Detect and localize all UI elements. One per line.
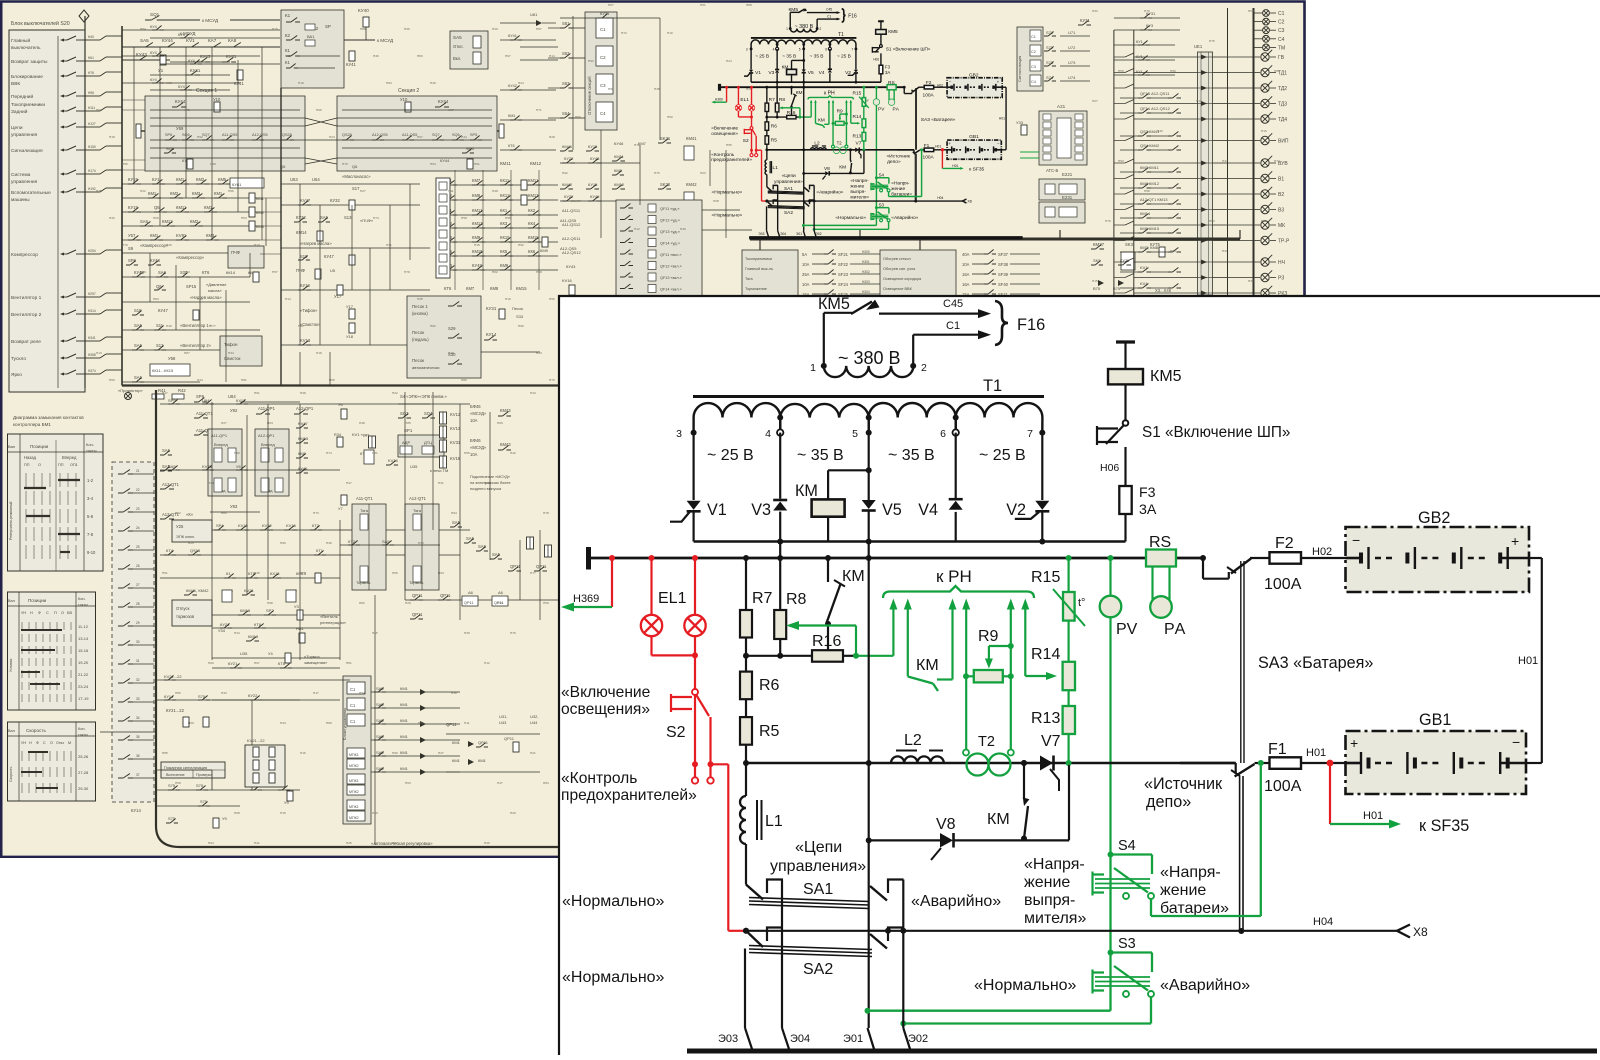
svg-text:УН: УН [21, 741, 26, 745]
svg-text:Н15: Н15 [272, 27, 278, 31]
svg-text:У9: У9 [222, 816, 228, 821]
wire H04 [766, 199, 962, 204]
svg-text:Н01: Н01 [1518, 655, 1538, 667]
svg-text:С45: С45 [943, 298, 963, 310]
low bus [767, 147, 914, 152]
svg-text:У68: У68 [168, 356, 176, 361]
svg-text:SQ7: SQ7 [202, 133, 210, 137]
svg-text:Н49: Н49 [680, 227, 686, 231]
svg-text:Х8: Х8 [967, 200, 971, 204]
svg-text:КМ1: КМ1 [508, 114, 516, 118]
svg-text:НЧ: НЧ [1278, 260, 1285, 266]
wire V8 row [869, 839, 940, 841]
battery GB2 [1346, 527, 1530, 592]
svg-text:37: 37 [136, 773, 140, 777]
svg-text:Н81: Н81 [346, 661, 352, 665]
svg-text:КМ42: КМ42 [686, 182, 697, 187]
svg-text:Главный вык-ль: Главный вык-ль [745, 267, 773, 271]
wire C1 with arrow [912, 335, 914, 366]
switch S4 [1108, 852, 1114, 858]
svg-text:Песок: Песок [512, 306, 523, 311]
svg-text:Н88: Н88 [746, 3, 752, 7]
sheet border [1, 2, 1304, 859]
svg-text:KV4: KV4 [1140, 281, 1148, 286]
svg-text:EL1: EL1 [740, 97, 749, 103]
svg-text:SA3 «Батарея»: SA3 «Батарея» [1258, 654, 1373, 672]
svg-text:такты: такты [78, 603, 88, 607]
svg-text:«Нормально»: «Нормально» [974, 977, 1077, 994]
wire S3 left net [803, 223, 876, 228]
svg-text:Н89: Н89 [221, 511, 227, 515]
svg-text:Н61: Н61 [96, 108, 102, 112]
svg-text:23-24: 23-24 [78, 684, 89, 689]
svg-text:Н77: Н77 [530, 571, 536, 575]
svg-text:Н67: Н67 [608, 3, 614, 7]
thyristor V1 [749, 70, 753, 73]
wire bar-coil [1124, 342, 1126, 369]
svg-text:П: П [54, 611, 57, 615]
svg-text:SP6: SP6 [165, 133, 172, 137]
svg-text:КУ31: КУ31 [1080, 18, 1090, 23]
svg-text:КМ14: КМ14 [296, 230, 307, 235]
svg-text:~ 25 В: ~ 25 В [707, 447, 754, 464]
svg-text:31: 31 [136, 659, 140, 663]
svg-text:QF12 «вкл.»: QF12 «вкл.» [660, 265, 682, 269]
svg-text:Н14: Н14 [549, 54, 555, 58]
svg-text:5-6: 5-6 [87, 514, 94, 519]
svg-text:КК14: КК14 [226, 270, 236, 275]
wire R5-lowbus [745, 745, 747, 763]
svg-text:Н83: Н83 [153, 297, 159, 301]
svg-text:1: 1 [786, 27, 788, 31]
green feedback to R8 [853, 653, 859, 659]
svg-text:Н74: Н74 [373, 216, 379, 220]
svg-text:15-16: 15-16 [78, 648, 89, 653]
wire 4-V3 [779, 433, 781, 499]
svg-text:У83: У83 [230, 504, 238, 509]
svg-text:Н02: Н02 [1312, 546, 1332, 558]
svg-text:Н97: Н97 [575, 199, 581, 203]
svg-text:F1: F1 [1268, 741, 1287, 758]
svg-text:Х3...Х46: Х3...Х46 [1155, 288, 1172, 293]
svg-text:депо»: депо» [887, 160, 901, 165]
wire coil-S1 [1124, 384, 1126, 419]
svg-text:100А: 100А [1264, 778, 1302, 795]
svg-text:29: 29 [136, 621, 140, 625]
svg-text:«Нагрев масла»: «Нагрев масла» [190, 295, 222, 300]
svg-text:Н73: Н73 [184, 270, 190, 274]
wire V3-bus [775, 73, 780, 82]
svg-text:Н98: Н98 [608, 87, 614, 91]
svg-text:Секция 2: Секция 2 [398, 88, 419, 94]
low bus [746, 762, 1236, 764]
svg-text:Главный: Главный [11, 37, 30, 44]
terminal 1 [789, 27, 792, 30]
svg-text:КМ: КМ [818, 117, 825, 123]
svg-text:S13: S13 [344, 215, 352, 220]
svg-text:А6: А6 [498, 590, 504, 595]
svg-text:U53: U53 [290, 177, 298, 182]
svg-text:Н369: Н369 [573, 593, 599, 605]
svg-text:Вентилятор 2: Вентилятор 2 [11, 312, 42, 318]
svg-text:к SF35: к SF35 [969, 167, 984, 173]
contact KM aux [789, 87, 794, 94]
wire E01 foot [868, 1028, 875, 1049]
T1 core [693, 395, 1044, 398]
svg-text:Кон-: Кон- [78, 597, 86, 601]
wire R7-node [745, 638, 747, 656]
svg-text:КК4: КК4 [528, 221, 536, 226]
svg-text:Э03: Э03 [718, 1033, 738, 1045]
svg-text:МПК1: МПК1 [349, 753, 359, 757]
svg-text:F1: F1 [924, 143, 930, 149]
svg-text:Н14: Н14 [285, 297, 291, 301]
svg-text:Н69: Н69 [153, 216, 159, 220]
svg-text:KV91: KV91 [176, 233, 187, 238]
svg-text:5: 5 [799, 47, 801, 51]
svg-text:−: − [1512, 734, 1520, 750]
svg-text:R15: R15 [853, 91, 862, 97]
resistor R14 [1067, 621, 1069, 662]
svg-text:Н80: Н80 [326, 721, 332, 725]
green wire 3 [827, 101, 832, 124]
svg-text:Н34: Н34 [234, 631, 240, 635]
svg-text:батареи»: батареи» [1160, 900, 1229, 917]
svg-text:S3: S3 [879, 202, 885, 207]
switch SA3 upper [1202, 558, 1204, 579]
svg-text:Н37: Н37 [1222, 159, 1228, 163]
svg-text:Н43: Н43 [280, 721, 286, 725]
svg-text:выпря-: выпря- [1024, 892, 1075, 909]
svg-text:Н62: Н62 [492, 270, 498, 274]
svg-text:R7: R7 [769, 97, 775, 103]
svg-text:Н80: Н80 [1274, 69, 1280, 73]
svg-text:«Компрессор»: «Компрессор» [176, 255, 205, 260]
svg-text:У7: У7 [338, 506, 344, 511]
svg-text:«Аварийно»: «Аварийно» [911, 893, 1001, 910]
svg-text:жение: жение [850, 185, 864, 190]
qf box [616, 200, 702, 297]
wire R16-green node [843, 655, 856, 657]
wire S1-F3 [879, 53, 884, 65]
svg-text:Э02: Э02 [908, 1033, 928, 1045]
svg-text:Н93: Н93 [438, 571, 444, 575]
svg-text:«Вентилятор 2»: «Вентилятор 2» [180, 343, 212, 348]
svg-text:Н23: Н23 [700, 171, 706, 175]
wire to KM coil [792, 58, 804, 63]
green feedback to R8 [798, 116, 801, 119]
svg-text:Н24: Н24 [518, 81, 524, 85]
svg-text:Н61: Н61 [298, 324, 304, 328]
svg-text:SP15: SP15 [186, 284, 197, 289]
svg-text:Н59: Н59 [1118, 69, 1124, 73]
svg-text:Н46: Н46 [484, 841, 490, 845]
resistor R7 [765, 103, 769, 111]
svg-text:КМ1: КМ1 [400, 702, 409, 707]
wire to S2 [749, 117, 754, 127]
svg-text:Н77: Н77 [210, 324, 216, 328]
svg-text:Н81: Н81 [241, 378, 247, 382]
svg-text:SP5: SP5 [470, 133, 477, 137]
terminal 2 [910, 363, 916, 369]
svg-text:Вентилятор 1: Вентилятор 1 [11, 295, 42, 301]
svg-text:V8: V8 [936, 816, 956, 833]
svg-text:R14: R14 [853, 114, 862, 120]
svg-text:Н83: Н83 [417, 54, 423, 58]
wire PV down to S4 [1109, 617, 1111, 854]
svg-text:Н36: Н36 [1248, 279, 1254, 283]
svg-text:У33: У33 [1016, 120, 1024, 125]
svg-text:к МСУД: к МСУД [377, 38, 394, 43]
svg-text:Н51: Н51 [700, 3, 706, 7]
svg-text:SP: SP [325, 24, 331, 29]
battery GB1 [947, 140, 1001, 159]
svg-text:С2: С2 [600, 55, 606, 60]
switch S1 [1123, 420, 1129, 426]
ground bus [749, 232, 1023, 243]
junction dots on bus [609, 555, 615, 561]
svg-text:У17: У17 [346, 304, 354, 309]
svg-text:контроллера БМ1: контроллера БМ1 [13, 422, 51, 427]
svg-text:SF22: SF22 [838, 262, 849, 267]
resistor R5 [765, 130, 770, 135]
svg-text:Н35: Н35 [417, 297, 423, 301]
svg-text:жение: жение [1024, 874, 1070, 891]
svg-text:КУ48: КУ48 [150, 258, 160, 263]
svg-text:~ 25 В: ~ 25 В [979, 447, 1026, 464]
green wire 6 to R14 [848, 101, 853, 123]
svg-text:V3: V3 [768, 70, 774, 76]
svg-text:К1: К1 [285, 60, 290, 65]
svg-text:27-28: 27-28 [78, 770, 89, 775]
svg-text:КУ41: КУ41 [346, 62, 356, 67]
svg-text:Позиции: Позиции [28, 598, 47, 603]
svg-text:U54: U54 [312, 177, 320, 182]
svg-text:Отяз: Отяз [56, 741, 64, 745]
R9 wiring [966, 675, 974, 677]
svg-text:Н99: Н99 [280, 541, 286, 545]
svg-text:Н48: Н48 [359, 421, 365, 425]
svg-text:У4: У4 [268, 651, 274, 656]
svg-text:Н58: Н58 [1144, 189, 1150, 193]
svg-text:регенерации»: регенерации» [320, 620, 347, 625]
svg-text:Н72: Н72 [621, 31, 627, 35]
svg-text:Н28: Н28 [713, 199, 719, 203]
diode V5 [862, 500, 876, 509]
rectifier bottom bus [694, 540, 1126, 542]
svg-text:Н16: Н16 [1261, 129, 1267, 133]
svg-text:К1: К1 [285, 48, 291, 53]
svg-text:R8: R8 [786, 591, 807, 608]
svg-text:Н27: Н27 [221, 421, 227, 425]
svg-text:QF11 «вкл.»: QF11 «вкл.» [660, 253, 681, 257]
svg-text:«Контроль: «Контроль [711, 152, 734, 158]
svg-text:Н96: Н96 [88, 91, 94, 95]
svg-text:С1: С1 [350, 719, 356, 724]
svg-text:10А: 10А [802, 262, 810, 267]
svg-text:V4: V4 [819, 70, 825, 76]
svg-text:3-4: 3-4 [87, 496, 94, 501]
svg-text:С2: С2 [1278, 20, 1285, 26]
svg-text:SA2: SA2 [784, 210, 793, 216]
svg-text:Н43: Н43 [530, 391, 536, 395]
svg-text:22: 22 [136, 488, 140, 492]
fuse F3 3A [1119, 486, 1131, 514]
svg-text:А21: А21 [1057, 104, 1066, 109]
svg-text:Н28: Н28 [549, 135, 555, 139]
svg-text:Н15: Н15 [474, 243, 480, 247]
svg-text:t°: t° [1078, 597, 1085, 609]
svg-text:Н46: Н46 [373, 54, 379, 58]
svg-text:7: 7 [1027, 428, 1033, 440]
relay coil KM5 [1108, 369, 1143, 384]
svg-text:R7: R7 [752, 590, 773, 607]
svg-text:Н02: Н02 [937, 83, 943, 87]
svg-text:16А: 16А [962, 282, 970, 287]
svg-text:Н47: Н47 [497, 781, 503, 785]
svg-text:КТ8: КТ8 [278, 661, 286, 666]
svg-text:5А: 5А [802, 252, 807, 257]
svg-text:Н30: Н30 [197, 297, 203, 301]
svg-text:КУ46: КУ46 [614, 141, 624, 146]
svg-text:Н57: Н57 [536, 27, 542, 31]
svg-text:29-30: 29-30 [78, 786, 89, 791]
svg-text:SF38: SF38 [998, 262, 1009, 267]
svg-text:Е221: Е221 [1062, 172, 1073, 177]
S20 bus vertical [84, 16, 86, 388]
svg-text:21-22: 21-22 [78, 672, 89, 677]
svg-text:МК: МК [1278, 223, 1285, 229]
svg-text:Н74: Н74 [1274, 159, 1280, 163]
svg-text:Н75: Н75 [96, 189, 102, 193]
background sheet [0, 0, 1306, 858]
contactor contact KM5 (top) [823, 313, 825, 366]
svg-text:Н15: Н15 [280, 811, 286, 815]
load box 2 [880, 250, 956, 370]
svg-text:UЕ1: UЕ1 [1194, 44, 1203, 49]
svg-text:Н70: Н70 [1144, 9, 1150, 13]
tap dot KM coil [802, 59, 805, 62]
svg-text:Тяга: Тяга [413, 508, 422, 513]
svg-text:25-26: 25-26 [78, 754, 89, 759]
svg-text:PV: PV [1116, 621, 1138, 638]
svg-text:V4: V4 [918, 501, 938, 519]
svg-text:«Тормоз: «Тормоз [304, 654, 320, 659]
svg-text:Н44: Н44 [197, 378, 203, 382]
wire R8-node [775, 112, 780, 117]
svg-text:Н01: Н01 [1306, 747, 1326, 759]
svg-text:Н79: Н79 [1105, 219, 1111, 223]
svg-text:QF13 «вкл.»: QF13 «вкл.» [660, 276, 682, 280]
svg-text:Возврат защиты: Возврат защиты [11, 59, 48, 65]
svg-text:Компрессор: Компрессор [11, 252, 38, 258]
wire GB2plus down [1002, 85, 1006, 90]
svg-text:У25: У25 [176, 524, 184, 529]
svg-text:РЗ: РЗ [1278, 276, 1284, 282]
svg-text:КМ8: КМ8 [490, 286, 499, 291]
svg-text:Вперед: Вперед [62, 455, 77, 460]
svg-text:КМ: КМ [839, 164, 846, 170]
svg-text:Вспомогательные: Вспомогательные [11, 190, 51, 196]
fuse F2 100A [1270, 552, 1302, 564]
svg-text:Н41: Н41 [254, 841, 260, 845]
svg-text:А11-QS5: А11-QS5 [560, 218, 577, 223]
svg-text:Н53: Н53 [1118, 159, 1124, 163]
center tap line down [801, 87, 806, 230]
svg-text:4: 4 [765, 428, 771, 440]
svg-text:Н76: Н76 [510, 631, 516, 635]
svg-text:Передний: Передний [11, 93, 33, 100]
wire red to SA2 [711, 763, 729, 765]
svg-text:Н04: Н04 [937, 196, 943, 200]
resistor R16 [812, 650, 843, 662]
svg-text:Н304: Н304 [862, 290, 870, 294]
green wire from R16 [856, 655, 893, 657]
svg-text:−: − [1352, 532, 1360, 548]
svg-text:100А: 100А [923, 154, 935, 160]
svg-text:Н88: Н88 [166, 81, 172, 85]
svg-text:Н19: Н19 [298, 81, 304, 85]
svg-text:Н01: Н01 [935, 145, 941, 149]
svg-text:SF40: SF40 [998, 282, 1009, 287]
svg-text:QS4 КМ42: QS4 КМ42 [1140, 143, 1160, 148]
wire F3-bus [879, 74, 884, 82]
diode V3 [773, 499, 787, 502]
svg-text:КУ43: КУ43 [566, 264, 576, 269]
svg-text:Песок: Песок [412, 358, 424, 363]
wire S3 right net [1150, 997, 1152, 1024]
svg-text:Н36: Н36 [140, 270, 146, 274]
svg-text:Н39: Н39 [464, 631, 470, 635]
svg-text:U35: U35 [240, 651, 248, 656]
shunt RS [887, 85, 896, 90]
wire V8-KM [829, 171, 850, 176]
svg-text:Н97: Н97 [254, 661, 260, 665]
svg-text:В3: В3 [1278, 208, 1284, 214]
svg-text:ПЧФ: ПЧФ [296, 268, 305, 273]
wire E04 [775, 185, 780, 230]
node row R16 [767, 115, 787, 120]
svg-text:Н01: Н01 [952, 164, 958, 168]
svg-text:«Нормально»: «Нормально» [562, 893, 665, 910]
svg-text:КУ1: КУ1 [152, 177, 160, 182]
terminal 4 [776, 47, 779, 50]
svg-text:Н52: Н52 [175, 511, 181, 515]
wire V4-bus [955, 512, 957, 542]
wire E02 [812, 185, 817, 230]
svg-text:Н174: Н174 [88, 169, 96, 173]
svg-text:EL1: EL1 [658, 590, 687, 607]
wire L1-SA1 [765, 175, 770, 187]
svg-text:КУ13: КУ13 [300, 283, 310, 288]
svg-text:1: 1 [810, 362, 816, 374]
svg-text:Н32: Н32 [109, 216, 115, 220]
svg-text:КУ41: КУ41 [234, 81, 244, 86]
svg-text:ПП: ПП [24, 463, 30, 467]
svg-text:ГВ: ГВ [1278, 55, 1285, 61]
svg-text:КМ11: КМ11 [500, 161, 511, 166]
svg-text:(педаль): (педаль) [412, 337, 429, 342]
svg-text:Н11: Н11 [448, 189, 454, 193]
wire coil-S1 [879, 34, 884, 45]
svg-text:Задний: Задний [11, 108, 28, 115]
svg-text:U44: U44 [530, 720, 538, 725]
svg-text:«Нормально»: «Нормально» [712, 213, 743, 219]
svg-text:U35: U35 [410, 464, 418, 469]
voltmeter PV [1109, 558, 1111, 596]
svg-text:Н75: Н75 [1209, 39, 1215, 43]
svg-text:S1 «Включение ШП»: S1 «Включение ШП» [886, 46, 931, 51]
